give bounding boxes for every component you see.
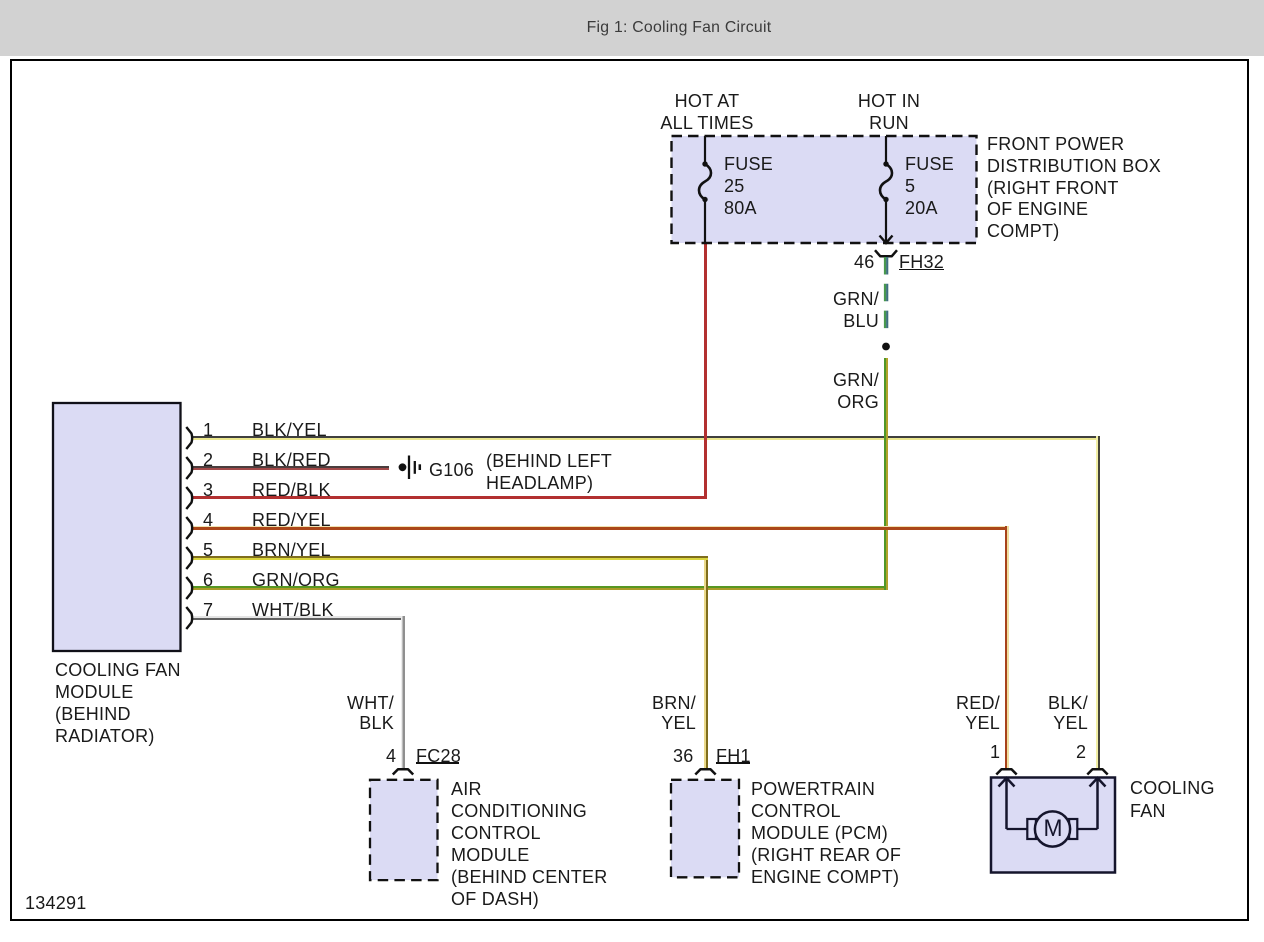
label fan pin 1 — [990, 741, 1000, 763]
label air conditioning control module — [451, 779, 608, 910]
label BRN/YEL vertical — [652, 693, 696, 733]
label front power distribution box — [987, 134, 1161, 243]
cooling fan box — [991, 778, 1115, 873]
wire pin1 BLK/YEL horizontal — [192, 436, 1100, 440]
ground G106 — [399, 463, 407, 471]
front power distribution box (dashed) — [672, 136, 977, 243]
label G106 — [429, 459, 474, 481]
label wire 4 RED/YEL — [252, 509, 331, 531]
label wire 7 WHT/BLK — [252, 599, 334, 621]
wire GRN/ORG vertical from splice — [884, 358, 888, 590]
label pin 46 — [854, 251, 875, 273]
label wire 6 GRN/ORG — [252, 569, 340, 591]
splice junction dot — [882, 343, 890, 351]
wire pin6 GRN/ORG horizontal — [192, 586, 888, 590]
connector FH32 arc — [875, 250, 897, 256]
air conditioning control module box (dashed) — [370, 780, 438, 880]
connector arc module pin 6 — [186, 577, 192, 599]
pin 3 number — [203, 479, 213, 501]
connector FC28 arc (AC module) — [393, 769, 413, 774]
connector arc module pin 2 — [186, 457, 192, 479]
wire pin1 BLK/YEL vertical to fan pin2 — [1096, 436, 1100, 769]
fuse F5 element — [883, 161, 888, 166]
fuse F25 lead top — [704, 136, 706, 164]
wire pin2 BLK/RED horizontal to G106 — [192, 466, 389, 470]
motor M1 brush blocks — [1027, 819, 1036, 839]
pin 6 number — [203, 569, 213, 591]
connector arc module pin 7 — [186, 607, 192, 629]
label FC28 — [416, 745, 461, 767]
wire pin5 BRN/YEL vertical to PCM — [704, 556, 708, 769]
label pin 36 — [673, 745, 694, 767]
label pin 4 — [386, 745, 396, 767]
header bar — [0, 0, 1264, 56]
wire pin5 BRN/YEL horizontal — [192, 556, 708, 560]
connector arc fan pin1 — [996, 769, 1016, 774]
motor M letter — [1043, 817, 1062, 841]
fuse F5 lead top — [885, 136, 887, 164]
label wire 2 BLK/RED — [252, 449, 331, 471]
pin 2 number — [203, 449, 213, 471]
label cooling fan — [1130, 777, 1215, 824]
motor M1 leads — [1007, 828, 1029, 830]
motor M1 body — [1035, 811, 1070, 846]
label HOT IN RUN — [858, 90, 920, 134]
connector arc fan pin2 — [1087, 769, 1107, 774]
fan internal arrow pin1 — [1005, 778, 1008, 829]
wire GRN/BLU dashed — [884, 257, 886, 331]
label FH1 — [716, 745, 751, 767]
title — [587, 18, 772, 37]
wire pin7 WHT/BLK horizontal — [192, 616, 405, 620]
label behind left headlamp — [486, 451, 612, 494]
pin 1 number — [203, 419, 213, 441]
label FUSE 5 20A — [905, 153, 954, 219]
wire pin4 RED/YEL vertical to fan pin1 — [1005, 526, 1009, 769]
label fan pin 2 — [1076, 741, 1086, 763]
label GRN/ORG vertical wire — [833, 370, 879, 413]
powertrain control module box (dashed) — [671, 780, 739, 878]
wire pin3 RED/BLK vertical to fuse 25 — [704, 243, 707, 499]
label wire 5 BRN/YEL — [252, 539, 331, 561]
fuse F25 lead bottom — [704, 200, 706, 244]
wire pin4 RED/YEL horizontal — [192, 526, 1009, 530]
label FH32 — [899, 251, 944, 273]
connector arc module pin 5 — [186, 547, 192, 569]
label RED/YEL vertical — [956, 693, 1000, 733]
label cooling fan module — [55, 659, 181, 748]
connector arc module pin 3 — [186, 487, 192, 509]
wire pin7 WHT/BLK vertical to AC module — [401, 616, 405, 769]
connector FH1 arc (PCM) — [695, 769, 715, 774]
wire pin3 RED/BLK horizontal — [192, 496, 706, 499]
label BLK/YEL vertical — [1048, 693, 1088, 733]
connector arc module pin 1 — [186, 427, 192, 449]
label WHT/BLK vertical — [347, 693, 394, 733]
label FUSE 25 80A — [724, 153, 773, 219]
cooling fan module box — [53, 403, 181, 651]
label figure number 134291 — [25, 892, 87, 914]
connector arc module pin 4 — [186, 517, 192, 539]
label HOT AT ALL TIMES — [660, 90, 753, 134]
fan internal arrow pin2 — [1096, 778, 1099, 829]
label wire 3 RED/BLK — [252, 479, 331, 501]
pin 5 number — [203, 539, 213, 561]
pin 4 number — [203, 509, 213, 531]
fuse F25 element — [702, 161, 707, 166]
label GRN/BLU — [833, 288, 879, 332]
label powertrain control module — [751, 779, 901, 889]
fuse F5 output arrow down — [885, 200, 887, 243]
label wire 1 BLK/YEL — [252, 419, 327, 441]
pin 7 number — [203, 599, 213, 621]
